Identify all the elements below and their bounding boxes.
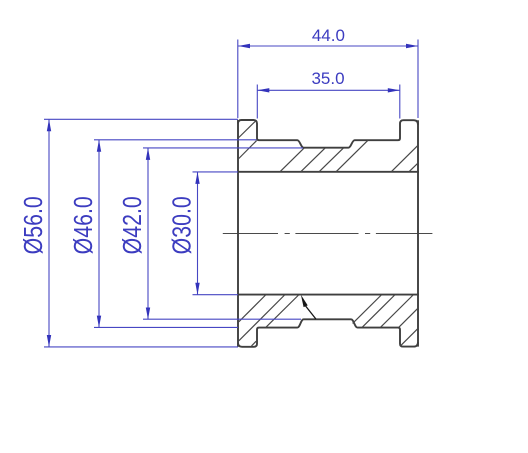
leader line (306, 306, 316, 319)
hatch D2 (239, 295, 285, 341)
part right face (417, 120, 419, 346)
ext 44.0 right (417, 40, 419, 119)
ext 35.0 right (399, 85, 401, 119)
hatch E3 (381, 295, 414, 327)
hatch E2 (362, 295, 394, 327)
outer profile top (238, 120, 418, 148)
ext Ø42 top (143, 147, 303, 149)
centerline (223, 233, 433, 235)
leader arrow at bore (301, 295, 308, 307)
hatch H6 (409, 163, 417, 171)
ext 35.0 left (256, 85, 258, 119)
bore top edge (237, 171, 419, 173)
hatch E1 (353, 295, 382, 323)
hatch flange upper L1 (239, 121, 256, 138)
dim Ø46 line (98, 140, 100, 328)
part left face (237, 120, 239, 347)
bore bottom edge (237, 294, 419, 296)
hatch H5 (392, 146, 418, 172)
hatch E5 flange foot right (401, 329, 418, 346)
ext Ø42 bottom (143, 318, 301, 320)
hatch foot corner tick (252, 341, 257, 346)
hatch H4 (336, 140, 367, 171)
dim 35.0 line (257, 89, 400, 91)
ext 44.0 left (237, 40, 239, 119)
dim Ø56 line (48, 119, 50, 347)
dim Ø30 line (197, 172, 199, 295)
hatch flange lower L2 (239, 141, 257, 159)
dim 44.0 line (238, 45, 418, 47)
dim Ø42 line (147, 148, 149, 320)
hatch H2 (301, 148, 325, 172)
ext Ø56 top (44, 118, 238, 120)
ext Ø46 top (94, 139, 257, 141)
svg-text:44.0: 44.0 (312, 26, 345, 45)
outer profile bottom (238, 319, 418, 347)
svg-text:35.0: 35.0 (311, 69, 344, 88)
ext Ø30 bottom (193, 294, 239, 296)
ext Ø56 bottom (44, 346, 238, 348)
ext Ø30 top (193, 171, 239, 173)
svg-text:Ø56.0: Ø56.0 (19, 196, 49, 254)
hatch E4 (399, 309, 418, 328)
hatch D1 (239, 295, 266, 322)
svg-text:Ø46.0: Ø46.0 (69, 196, 99, 254)
svg-text:Ø42.0: Ø42.0 (118, 196, 148, 254)
ext Ø46 bottom (94, 326, 238, 328)
hatch H1 (280, 148, 304, 172)
svg-text:Ø30.0: Ø30.0 (168, 196, 198, 254)
hatch H3 (319, 148, 343, 172)
hatch D3 (266, 295, 299, 327)
